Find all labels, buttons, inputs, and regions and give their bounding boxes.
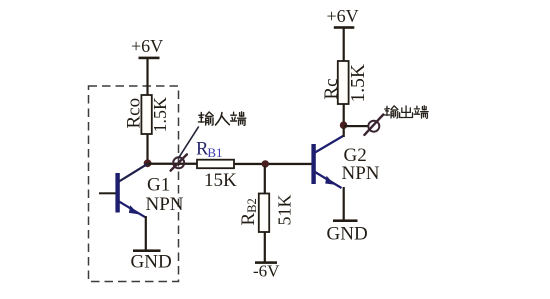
wire Q2 emitter to GND — [343, 187, 345, 220]
GND bar (Q1) — [133, 249, 161, 252]
wire Q1 emitter to GND — [145, 216, 147, 250]
svg-text:1.5K: 1.5K — [150, 97, 170, 133]
transistor Q1 emitter line — [119, 202, 145, 218]
transistor Q2 collector line — [315, 136, 343, 153]
transistor Q1 collector line — [119, 164, 148, 182]
svg-text:GND: GND — [131, 252, 172, 273]
transistor Q2 emitter line — [315, 172, 342, 188]
svg-text:GND: GND — [327, 224, 368, 245]
wire node C to output terminal — [344, 125, 369, 127]
input terminal slash — [171, 154, 187, 170]
wire Q2 collector to node C — [343, 128, 345, 137]
wire node A to RB1 — [148, 163, 198, 165]
svg-text:+6V: +6V — [131, 36, 163, 56]
resistor Rc body — [338, 61, 349, 104]
transistor Q1 base bar — [115, 173, 119, 213]
svg-text:Rc: Rc — [321, 78, 342, 99]
svg-text:Rco: Rco — [124, 98, 145, 129]
wire RB2 to -6V bar — [264, 232, 266, 262]
output terminal slash — [364, 115, 383, 135]
wire RB1 to G2 base — [234, 163, 312, 165]
svg-text:1.5K: 1.5K — [348, 64, 369, 102]
input pointer line — [179, 127, 199, 158]
+6V supply bar (right) — [334, 26, 355, 29]
resistor RB2 body — [259, 194, 269, 233]
resistor RB1 body — [197, 160, 234, 169]
output terminal circle — [368, 121, 379, 132]
svg-text:G1: G1 — [147, 175, 170, 196]
wire Rco to node A — [146, 134, 148, 164]
GND bar (Q2) — [333, 219, 358, 222]
wire supply to Rc — [343, 29, 345, 62]
svg-text:15K: 15K — [204, 170, 237, 191]
input terminal circle — [173, 157, 184, 168]
junction node B — [262, 160, 269, 167]
+6V supply bar (left) — [139, 57, 160, 60]
transistor Q1 emitter arrow — [129, 205, 139, 214]
transistor Q1 base lead — [99, 192, 116, 194]
dashed enclosure box around first stage — [89, 86, 179, 282]
transistor Q2 emitter arrow — [325, 176, 335, 185]
junction node C — [340, 121, 348, 129]
wire supply to Rco — [146, 59, 148, 96]
wire node B to RB2 — [264, 166, 266, 194]
svg-text:-6V: -6V — [253, 262, 280, 281]
svg-text:NPN: NPN — [146, 194, 184, 215]
label 输出端 — [384, 106, 428, 119]
-6V supply bar — [255, 261, 277, 264]
resistor Rco body — [141, 95, 151, 134]
junction node A — [144, 159, 152, 167]
transistor Q2 base bar — [311, 144, 315, 184]
label 输入端 — [198, 112, 245, 126]
svg-text:+6V: +6V — [327, 6, 359, 26]
svg-text:51K: 51K — [275, 195, 295, 226]
wire Rc to node C — [343, 104, 345, 125]
svg-text:NPN: NPN — [342, 163, 380, 184]
